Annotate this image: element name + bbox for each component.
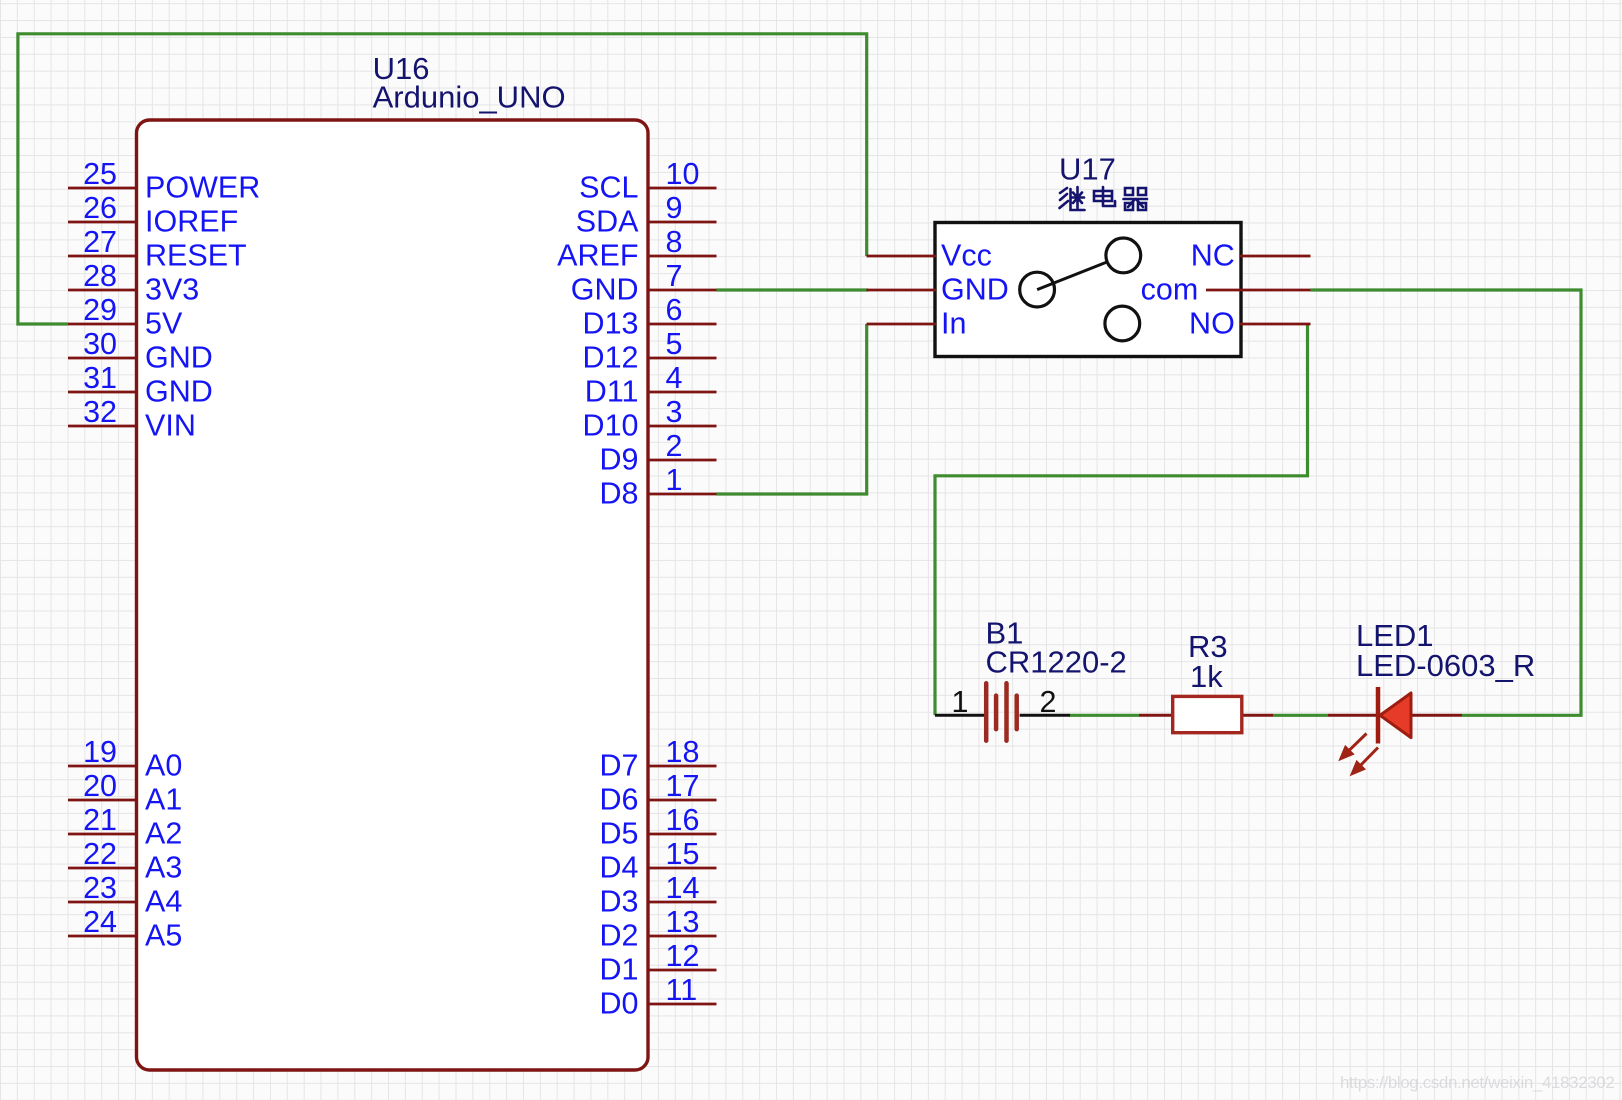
svg-text:In: In: [941, 307, 966, 341]
svg-text:GND: GND: [145, 341, 213, 375]
svg-text:D13: D13: [583, 307, 639, 341]
wire net com: relay U17 com to LED1 cathode: [1311, 290, 1582, 715]
pin 4 D11 (U16): [585, 361, 717, 409]
B1 reference designator and value labels: [986, 615, 1127, 679]
svg-text:D10: D10: [583, 409, 639, 443]
pin 29 5V (U16): [68, 293, 183, 341]
svg-text:30: 30: [83, 327, 117, 361]
wire net D8: Arduino D8 pin1 to relay U17 In: [717, 324, 867, 494]
svg-text:28: 28: [83, 259, 117, 293]
pin 31 GND (U16): [68, 361, 213, 409]
pin 2 D9 (U16): [600, 429, 717, 477]
svg-text:NC: NC: [1191, 239, 1235, 273]
pin 10 SCL (U16): [579, 157, 716, 205]
svg-text:IOREF: IOREF: [145, 205, 238, 239]
pin 21 A2 (U16): [68, 803, 182, 851]
svg-text:D1: D1: [600, 953, 639, 987]
battery B1 pin 2: [1020, 685, 1070, 719]
pin 32 VIN (U16): [68, 395, 196, 443]
svg-text:AREF: AREF: [557, 239, 638, 273]
relay contact NC circle: [1106, 238, 1141, 273]
svg-text:25: 25: [83, 157, 117, 191]
pin NO (relay U17): [1189, 307, 1310, 341]
LED1 emission arrows: [1341, 734, 1378, 774]
svg-text:11: 11: [666, 973, 698, 1007]
svg-text:24: 24: [83, 905, 117, 939]
pin 15 D4 (U16): [600, 837, 717, 885]
svg-text:A0: A0: [145, 749, 182, 783]
svg-text:D7: D7: [600, 749, 639, 783]
svg-text:1k: 1k: [1190, 659, 1223, 694]
U16 reference designator and value labels: [373, 51, 566, 115]
svg-text:19: 19: [83, 735, 117, 769]
pin 11 D0 (U16): [600, 973, 717, 1021]
resistor R3 leads: [1139, 714, 1273, 717]
wire net R3-LED1: resistor R3 to LED1 anode: [1273, 714, 1328, 717]
pin 16 D5 (U16): [600, 803, 717, 851]
IC U16 Ardunio_UNO body: [137, 120, 649, 1070]
svg-text:D12: D12: [583, 341, 639, 375]
svg-text:16: 16: [666, 803, 700, 837]
svg-text:A2: A2: [145, 817, 182, 851]
svg-text:5: 5: [666, 327, 683, 361]
svg-text:5V: 5V: [145, 307, 183, 341]
svg-text:2: 2: [666, 429, 683, 463]
svg-text:A4: A4: [145, 885, 182, 919]
pin 23 A4 (U16): [68, 871, 182, 919]
pin com (relay U17): [1141, 273, 1311, 307]
pin 17 D6 (U16): [600, 769, 717, 817]
svg-text:18: 18: [666, 735, 700, 769]
svg-text:LED-0603_R: LED-0603_R: [1356, 648, 1535, 683]
svg-text:U17: U17: [1059, 152, 1116, 187]
svg-text:https://blog.csdn.net/weixin_4: https://blog.csdn.net/weixin_41832302: [1340, 1073, 1614, 1092]
svg-text:26: 26: [83, 191, 117, 225]
battery B1 pin 1: [935, 685, 986, 719]
U17 reference designator label: [1059, 152, 1116, 187]
svg-text:22: 22: [83, 837, 117, 871]
svg-text:A1: A1: [145, 783, 182, 817]
svg-text:POWER: POWER: [145, 171, 260, 205]
pin 8 AREF (U16): [557, 225, 716, 273]
svg-text:15: 15: [666, 837, 700, 871]
svg-text:RESET: RESET: [145, 239, 247, 273]
battery B1 body (plates): [986, 683, 1017, 740]
pin 6 D13 (U16): [583, 293, 717, 341]
LED1 reference designator and value labels: [1356, 618, 1535, 683]
pin 18 D7 (U16): [600, 735, 717, 783]
pin 1 D8 (U16): [600, 463, 717, 511]
svg-text:27: 27: [83, 225, 117, 259]
relay switch lever: [1037, 262, 1107, 290]
resistor R3 body: [1173, 696, 1242, 732]
svg-text:2: 2: [1040, 685, 1057, 719]
svg-text:29: 29: [83, 293, 117, 327]
svg-text:21: 21: [83, 803, 117, 837]
svg-text:D3: D3: [600, 885, 639, 919]
svg-text:SDA: SDA: [576, 205, 639, 239]
svg-text:1: 1: [952, 685, 969, 719]
svg-text:D5: D5: [600, 817, 639, 851]
svg-text:SCL: SCL: [579, 171, 638, 205]
svg-text:D2: D2: [600, 919, 639, 953]
pin 14 D3 (U16): [600, 871, 717, 919]
pin 20 A1 (U16): [68, 769, 182, 817]
svg-text:A5: A5: [145, 919, 182, 953]
svg-text:4: 4: [666, 361, 683, 395]
pin 13 D2 (U16): [600, 905, 717, 953]
svg-text:VIN: VIN: [145, 409, 196, 443]
svg-text:14: 14: [666, 871, 700, 905]
pin 27 RESET (U16): [68, 225, 247, 273]
svg-text:GND: GND: [941, 273, 1009, 307]
pin 28 3V3 (U16): [68, 259, 199, 307]
svg-text:com: com: [1141, 273, 1199, 307]
wire net B1-R3: battery B1 pin2 to resistor R3: [1070, 714, 1139, 717]
LED1 leads: [1328, 714, 1462, 717]
svg-text:CR1220-2: CR1220-2: [986, 644, 1127, 679]
svg-text:12: 12: [666, 939, 700, 973]
pin 25 POWER (U16): [68, 157, 260, 205]
svg-text:NO: NO: [1189, 307, 1235, 341]
svg-text:23: 23: [83, 871, 117, 905]
svg-text:9: 9: [666, 191, 683, 225]
relay contact NO circle: [1105, 306, 1140, 341]
pin 24 A5 (U16): [68, 905, 182, 953]
svg-text:Vcc: Vcc: [941, 239, 992, 273]
watermark: [1340, 1073, 1614, 1092]
pin In (relay U17): [867, 307, 967, 341]
pin 19 A0 (U16): [68, 735, 182, 783]
svg-text:Ardunio_UNO: Ardunio_UNO: [373, 80, 566, 115]
R3 reference designator and value labels: [1188, 629, 1228, 694]
pin 3 D10 (U16): [583, 395, 717, 443]
pin NC (relay U17): [1191, 239, 1311, 273]
svg-text:10: 10: [666, 157, 700, 191]
pin 22 A3 (U16): [68, 837, 182, 885]
wire net NO: relay U17 NO to battery B1 pin1: [935, 324, 1308, 715]
svg-text:GND: GND: [571, 273, 639, 307]
svg-text:3: 3: [666, 395, 683, 429]
svg-text:7: 7: [666, 259, 683, 293]
svg-text:8: 8: [666, 225, 683, 259]
svg-text:D8: D8: [600, 477, 639, 511]
pin 9 SDA (U16): [576, 191, 717, 239]
svg-text:6: 6: [666, 293, 683, 327]
svg-text:31: 31: [83, 361, 117, 395]
U17 value label 继电器 (drawn strokes): [1060, 187, 1148, 210]
svg-text:A3: A3: [145, 851, 182, 885]
svg-text:GND: GND: [145, 375, 213, 409]
pin 12 D1 (U16): [600, 939, 717, 987]
svg-text:D11: D11: [585, 375, 639, 409]
svg-text:20: 20: [83, 769, 117, 803]
pin GND (relay U17): [867, 273, 1009, 307]
svg-text:17: 17: [666, 769, 700, 803]
relay U17 body: [935, 223, 1241, 357]
svg-text:D6: D6: [600, 783, 639, 817]
wire net GND: Arduino GND pin7 to relay U17 GND: [717, 288, 869, 291]
svg-text:13: 13: [666, 905, 700, 939]
svg-text:3V3: 3V3: [145, 273, 199, 307]
svg-text:D0: D0: [600, 987, 639, 1021]
pin 7 GND (U16): [571, 259, 717, 307]
pin 26 IOREF (U16): [68, 191, 238, 239]
svg-text:D9: D9: [600, 443, 639, 477]
relay contact com circle: [1020, 272, 1055, 307]
pin Vcc (relay U17): [867, 239, 992, 273]
pin 5 D12 (U16): [583, 327, 717, 375]
svg-text:1: 1: [666, 463, 683, 497]
svg-text:D4: D4: [600, 851, 639, 885]
LED1 body (cathode bar and triangle): [1378, 687, 1411, 744]
svg-text:32: 32: [83, 395, 117, 429]
wire net 5V: Arduino 5V pin29 to relay U17 Vcc: [18, 34, 867, 324]
pin 30 GND (U16): [68, 327, 213, 375]
